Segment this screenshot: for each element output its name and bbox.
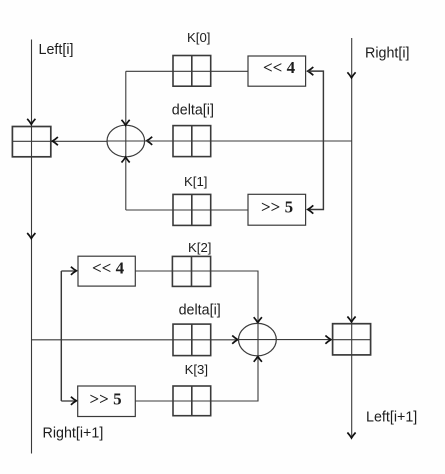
box shift right 5 (bottom): [78, 386, 136, 417]
arrowhead into left box: [52, 137, 58, 145]
arrowhead into shiftR5 bottom: [71, 397, 77, 405]
box store Left (top-left): [12, 127, 50, 157]
arrowhead into bottom-right box: [347, 317, 355, 323]
wire shiftL4 to K2: [135, 270, 172, 272]
wire delta top to Right line: [211, 140, 352, 142]
wire left branch bottom: [60, 271, 62, 401]
svg-text:Right[i+1]: Right[i+1]: [43, 426, 104, 442]
box shift right 5 (top): [248, 194, 306, 225]
svg-text:K[1]: K[1]: [184, 174, 207, 189]
wire bottom main horizontal: [32, 339, 239, 341]
arrowhead mid left line: [27, 233, 35, 239]
box store Left (bottom-right): [333, 324, 371, 355]
arrowhead into shiftR5 right: [308, 205, 314, 213]
svg-text:>> 5: >> 5: [90, 390, 122, 409]
xor node top (circle): [107, 125, 145, 157]
svg-text:Left[i+1]: Left[i+1]: [366, 410, 417, 426]
svg-text:K[0]: K[0]: [187, 30, 210, 45]
svg-text:K[2]: K[2]: [188, 240, 211, 255]
box K[1]: [173, 194, 211, 225]
wire branch to shiftR5 bottom: [61, 400, 76, 402]
wire Left[i] main vertical: [31, 40, 33, 454]
arrowhead into top-left box: [27, 119, 35, 125]
box delta[i] bottom: [173, 324, 211, 356]
arrowhead into bottom-right box: [325, 336, 331, 344]
arrowhead into xor top from below: [122, 157, 130, 163]
box shift left 4 (bottom): [78, 256, 135, 286]
box K[2]: [172, 256, 210, 286]
svg-text:<< 4: << 4: [263, 58, 296, 77]
wire delta row to xor: [145, 140, 173, 142]
arrowhead into xor bottom from below: [254, 356, 262, 362]
wire horizontal through xor top: [107, 140, 145, 142]
wire xor bottom to right box: [276, 339, 331, 341]
wire shiftR5 to K3: [135, 400, 173, 402]
wire horizontal through xor bottom: [239, 339, 277, 341]
xor node bottom (circle): [239, 323, 277, 355]
svg-text:Right[i]: Right[i]: [365, 46, 410, 62]
arrowhead bottom of right line: [347, 433, 355, 439]
wire K0 to shiftL4: [211, 70, 248, 72]
svg-text:delta[i]: delta[i]: [179, 303, 221, 319]
arrowhead into xor bottom from left: [232, 336, 238, 344]
box shift left 4 (top): [248, 56, 306, 86]
box K[3]: [173, 386, 211, 416]
wire K0 corner horizontal: [126, 70, 173, 72]
wire vertical through xor top (K0 corner to K1 corner): [125, 71, 127, 210]
svg-text:>> 5: >> 5: [261, 198, 293, 217]
box K[0]: [173, 56, 211, 87]
wire K1 to shiftR5: [211, 209, 248, 211]
svg-text:Left[i]: Left[i]: [39, 42, 74, 58]
svg-text:delta[i]: delta[i]: [172, 103, 214, 119]
arrowhead into xor bottom from above: [254, 317, 262, 323]
arrowhead into shiftL4 bottom: [71, 267, 77, 275]
box delta[i] top: [173, 126, 211, 157]
arrowhead mid right line: [347, 72, 355, 78]
arrowhead into xor top from above: [122, 120, 130, 126]
svg-text:<< 4: << 4: [92, 259, 125, 278]
wire branch to shiftL4 bottom: [61, 270, 76, 272]
wire K2 to xor bottom (corner): [211, 271, 258, 401]
wire K1 corner horizontal: [126, 209, 173, 211]
wire XOR1 to left box: [51, 140, 107, 142]
arrowhead into shiftL4 right: [308, 67, 314, 75]
wire right branch top corner: [308, 71, 324, 209]
arrowhead into xor top from right: [147, 137, 153, 145]
svg-text:K[3]: K[3]: [185, 362, 208, 377]
wire Right[i] main vertical: [351, 38, 353, 438]
